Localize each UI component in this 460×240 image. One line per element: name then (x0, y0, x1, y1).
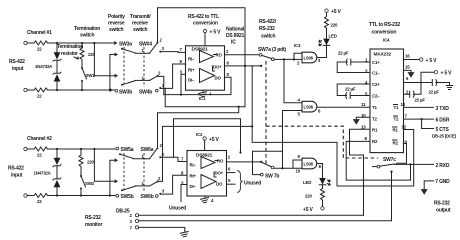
svg-text:T1: T1 (372, 105, 377, 110)
switch SW7b (260, 161, 262, 163)
resistor 220 top LED (325, 12, 329, 28)
switch SW6b pole blade (150, 182, 157, 186)
node ch2 220 top (80, 148, 82, 150)
wire pin2 cap to +5V (404, 72, 435, 97)
node pin6 +5V tie (420, 82, 422, 84)
contact SW7a throw2 (252, 65, 260, 67)
svg-text:R2: R2 (372, 139, 378, 144)
svg-text:Polarity: Polarity (108, 14, 125, 20)
svg-text:22 µF: 22 µF (345, 87, 356, 92)
svg-text:SW6a: SW6a (141, 147, 154, 153)
wire T2 ground (356, 117, 370, 119)
svg-text:+ 5 V: + 5 V (426, 58, 438, 64)
node RXD tie (409, 163, 411, 165)
resistor 220 ch2 termination (79, 149, 83, 169)
svg-text:1N4732A: 1N4732A (34, 171, 52, 176)
op-amp IC1 DS8921 box (186, 46, 225, 90)
svg-text:input: input (11, 173, 23, 179)
terminal ch2 top input (24, 147, 27, 150)
wire IC1 DI- unused stub (181, 74, 186, 94)
contact SW7b throw2 (260, 173, 263, 176)
svg-text:Unused: Unused (169, 206, 186, 212)
wire SW4b-2 to DO- return (159, 76, 164, 94)
wire ch1 bottom rail (48, 89, 115, 91)
wire SW6a-3 to IC2 pin7 (161, 157, 187, 161)
wire ch1 transmit bus DO+ (158, 8, 246, 107)
svg-text:switch: switch (261, 34, 276, 40)
svg-text:6 DSR: 6 DSR (436, 118, 450, 124)
wire RO out (214, 54, 217, 56)
linkage SW3 dashed (123, 47, 125, 87)
wire gate2 out to T1 (317, 106, 370, 108)
contact SW4a throw 3 (159, 51, 161, 53)
node DSR/CTS tie (421, 118, 423, 120)
contact SW6a throw 3 (159, 156, 161, 158)
node ch1 220 bottom (81, 89, 83, 91)
wire LED to resistor (326, 28, 328, 39)
node SW7c lower contact (390, 171, 392, 173)
node ch2 bus end (239, 151, 241, 153)
svg-text:output: output (436, 208, 451, 214)
linkage SW7 dashed branch to SW7c (266, 126, 378, 158)
svg-text:LS08: LS08 (304, 105, 314, 110)
svg-text:IC3: IC3 (294, 43, 301, 48)
LED D5 top (323, 39, 330, 46)
wire SW5b-SW6b common (135, 185, 150, 187)
node ch2 bottom / zener (56, 194, 58, 196)
op-amp IC2 DS8921 box (187, 151, 227, 197)
wire RI- feed link (S3) (174, 119, 241, 158)
wire SW4b-3 to IC1 pin8 (161, 64, 186, 88)
svg-text:22 µF: 22 µF (338, 51, 349, 56)
ground IC1 pin4 (199, 90, 207, 97)
svg-text:resistor: resistor (61, 51, 78, 57)
svg-text:15: 15 (405, 65, 410, 70)
svg-text:12: 12 (402, 124, 407, 129)
wire IC2 DI- unused (181, 185, 187, 202)
terminal +5V pin16 (420, 58, 423, 61)
svg-text:TTL to RS-232: TTL to RS-232 (369, 22, 400, 28)
svg-text:22: 22 (37, 153, 42, 158)
svg-text:MAX232: MAX232 (374, 52, 392, 58)
svg-text:220: 220 (305, 194, 312, 199)
svg-text:SW5b: SW5b (121, 194, 134, 200)
wire monitor line 7 (139, 227, 185, 230)
switch SW3a pole blade (121, 48, 123, 50)
wire ch2 bottom rail left (27, 195, 34, 197)
svg-text:DI–: DI– (190, 184, 197, 189)
svg-text:1N4732A: 1N4732A (35, 64, 53, 69)
svg-text:3 TXD: 3 TXD (436, 106, 450, 112)
svg-text:SW1: SW1 (86, 73, 96, 78)
wire gate3 pin9 jog (293, 160, 302, 168)
switch SW2 (80, 169, 82, 175)
svg-text:DI–: DI– (188, 78, 195, 83)
svg-text:IC: IC (231, 40, 236, 46)
svg-text:+ 5 V: + 5 V (210, 30, 222, 36)
wire IC1 pin6 DO+ to SW7a throw2 (225, 65, 253, 67)
terminal SW5a left (116, 147, 119, 150)
node pin6 bus junction (244, 65, 246, 67)
wire monitor line 2 (139, 214, 364, 216)
svg-text:SW3b: SW3b (119, 90, 132, 96)
node gate2 tap (283, 58, 285, 60)
switch SW4a pole blade (150, 44, 157, 54)
zener D2 1N4732A (53, 72, 61, 74)
svg-text:monitor: monitor (85, 222, 102, 228)
svg-text:13: 13 (361, 124, 366, 129)
node DI- join (180, 94, 182, 96)
wire SW5a-SW6a common (133, 158, 150, 160)
svg-text:DB-25 (DCE): DB-25 (DCE) (432, 134, 457, 139)
arrow to termination resistor (74, 57, 79, 59)
switch SW7c (373, 166, 378, 168)
svg-text:switch: switch (109, 27, 124, 33)
svg-text:SW2: SW2 (85, 181, 95, 186)
svg-text:DO: DO (215, 76, 222, 81)
wire SW7a throw2 to R1bar pin12 (A path) (252, 66, 414, 186)
svg-text:22 µF: 22 µF (429, 90, 440, 95)
terminal +5V pin2 (434, 71, 437, 74)
svg-text:Channel #2: Channel #2 (27, 136, 52, 142)
switch SW5a pole blade (119, 153, 121, 155)
svg-text:T1: T1 (394, 105, 399, 110)
svg-text:16: 16 (405, 54, 410, 59)
svg-text:+5 V: +5 V (209, 137, 219, 143)
linkage SW7 dashed vertical (265, 61, 267, 164)
svg-text:receive: receive (132, 21, 148, 27)
svg-text:RI+: RI+ (188, 68, 195, 73)
svg-text:SW7c: SW7c (383, 157, 396, 163)
svg-text:DO+: DO+ (215, 171, 224, 176)
svg-text:11: 11 (361, 102, 366, 107)
switch SW1 (81, 62, 83, 67)
svg-text:SW5a: SW5a (121, 147, 134, 153)
svg-text:C1–: C1– (372, 71, 380, 76)
svg-text:22: 22 (37, 199, 42, 204)
wire ch2 top rail (48, 148, 115, 150)
wire gate2 pin4 feed (284, 59, 302, 102)
wire SW6b-2 up to DO- bus (S4) (159, 126, 252, 181)
crossover wire ch1 top-to-lower (94, 43, 117, 77)
wire IC2 pin5 stub (227, 183, 236, 185)
svg-text:5 CTS: 5 CTS (436, 127, 450, 133)
wire ch2 bottom rail (48, 195, 115, 197)
node S1 junction (238, 106, 240, 108)
wire RO out IC2 (215, 160, 218, 162)
linkage SW5 dashed (123, 153, 125, 192)
wire DO- return line (164, 77, 231, 94)
wire ch1 top rail left (27, 42, 34, 44)
switch SW4b pole blade (150, 76, 157, 80)
resistor 22 ch1 top (34, 41, 48, 45)
svg-text:RS-422 to TTL: RS-422 to TTL (188, 14, 219, 20)
zener D1 1N4732A (56, 43, 58, 52)
svg-text:Termination: Termination (74, 26, 100, 32)
wire pin15 ground (404, 70, 412, 72)
contact SW4b throw 3 (159, 87, 161, 89)
wire gate2 pin5 feed (283, 111, 303, 169)
switch SW3b pole blade (121, 84, 123, 86)
svg-text:C2+: C2+ (372, 82, 380, 87)
zener D4 1N4732A (53, 178, 61, 180)
svg-text:IC4: IC4 (383, 38, 390, 43)
svg-text:R1: R1 (393, 128, 399, 133)
wire IC1 pin2 RO to SW7a (225, 54, 260, 56)
svg-text:reverse: reverse (108, 21, 125, 27)
svg-text:conversion: conversion (372, 30, 397, 36)
svg-text:2 RXD: 2 RXD (436, 163, 450, 169)
svg-text:DO+: DO+ (213, 65, 222, 70)
gate IC3a LS08 (302, 52, 317, 63)
svg-text:RI–: RI– (190, 163, 197, 168)
svg-text:T2: T2 (394, 117, 399, 122)
wire CTS branch (422, 119, 434, 128)
svg-text:R2: R2 (393, 141, 399, 146)
ground arrow pin15 (408, 73, 414, 78)
svg-text:Transmit/: Transmit/ (130, 14, 151, 20)
svg-text:SW 7b: SW 7b (265, 174, 279, 180)
svg-text:DB-25: DB-25 (116, 209, 130, 215)
wire R2bar pin9 (E path) (397, 144, 407, 164)
node gate3 input junction (281, 167, 283, 169)
svg-text:SW6b: SW6b (141, 194, 154, 200)
svg-text:T2: T2 (372, 117, 377, 122)
brace unused outputs (237, 171, 242, 193)
svg-text:LS08: LS08 (304, 162, 314, 167)
svg-text:SW3a: SW3a (119, 42, 132, 48)
resistor 220 ch1 termination (80, 43, 84, 62)
svg-text:LED: LED (303, 180, 311, 185)
buffer IC1 driver triangle (200, 69, 215, 83)
wire IC2 pin2 RO to SW7b (227, 161, 261, 163)
wire ch2 bus riser to S1 (S2) (158, 107, 239, 147)
svg-text:14: 14 (401, 102, 406, 107)
svg-text:C2–: C2– (372, 94, 380, 99)
wire SW7b common to gate3 (274, 167, 302, 169)
resistor 22 ch2 top (34, 147, 48, 151)
node S4 junction on A path (251, 125, 253, 127)
wire DO+ link to ch2 switch (S1) (165, 88, 245, 106)
wire SW7b throw2 loop (253, 151, 283, 174)
ground IC2 pin4 (201, 196, 209, 203)
svg-text:RI+: RI+ (190, 174, 197, 179)
svg-text:22: 22 (37, 94, 42, 99)
node ch1 220 top (81, 42, 83, 44)
wire SW7a out to gate1 (274, 58, 302, 60)
wire R1 pin13 to monitor line 2 (C path) (350, 129, 371, 215)
node gate1 pin1 tap (293, 58, 295, 60)
svg-text:+5 V: +5 V (331, 9, 341, 15)
ground arrow GND symbol (424, 181, 434, 190)
arrow into SW3b (110, 89, 112, 91)
svg-text:220: 220 (87, 160, 94, 165)
svg-text:LED: LED (329, 34, 337, 39)
svg-text:RS-422/: RS-422/ (259, 19, 277, 25)
wire DO+ out (213, 66, 215, 71)
terminal +5V IC2 (203, 137, 206, 140)
wire pin6 cap (404, 80, 450, 86)
terminal ch1 top input (24, 41, 27, 44)
wire gate1 out to LED (317, 45, 326, 57)
svg-text:RS-232: RS-232 (259, 26, 275, 32)
svg-text:+5 V: +5 V (303, 207, 313, 213)
gate IC3c LS08 (302, 158, 317, 169)
svg-text:Unused: Unused (244, 181, 261, 187)
wire +5V to IC2 (204, 140, 206, 150)
ground DB25 pin7 (180, 231, 188, 237)
node ch2 top / zener (56, 148, 58, 150)
svg-text:Channel #1: Channel #1 (27, 30, 52, 36)
wire ch1 top rail (48, 42, 112, 44)
wire SW3a-SW4a common (135, 52, 150, 54)
ground arrow T2 (354, 120, 360, 125)
svg-text:National: National (226, 27, 245, 33)
svg-text:input: input (12, 66, 24, 72)
contact SW4b right circle (156, 89, 159, 92)
wire DO+ out IC2 (214, 172, 216, 177)
crossover wire ch2 top-to-lower (94, 149, 117, 183)
svg-text:7 GND: 7 GND (435, 179, 450, 185)
svg-text:SW#4: SW#4 (139, 42, 152, 48)
wire T1bar to TXD (404, 106, 434, 108)
node ch1 top / zener (56, 42, 58, 44)
contact SW6b throw 3 (159, 193, 161, 195)
svg-text:RS-232: RS-232 (434, 201, 450, 207)
wire +5V to IC1 (204, 33, 206, 46)
chip IC4 MAX232 box (370, 49, 404, 153)
svg-text:SW7a (3 pdt): SW7a (3 pdt) (258, 47, 286, 53)
wire monitor line 3 (139, 220, 392, 222)
zener D3 1N4732A (56, 149, 58, 158)
crossover wire ch2 bottom-to-upper (110, 159, 117, 195)
resistor 220 bottom LED (321, 189, 325, 207)
wire T2bar to DSR (404, 118, 434, 120)
switch SW5b pole blade (121, 189, 123, 191)
terminal SW5b left (116, 194, 119, 197)
wire monitor RXD to SW7c lower (391, 172, 393, 221)
linkage SW4 dashed (143, 47, 145, 87)
arrow into SW3a (112, 42, 117, 44)
wire SW3b-SW4b common (135, 79, 150, 81)
wire LED2 to resistor (322, 185, 324, 189)
svg-text:RO: RO (216, 53, 223, 58)
svg-text:22 µF: 22 µF (415, 98, 426, 103)
terminal +5V bottom (321, 207, 324, 210)
svg-text:RI–: RI– (188, 57, 195, 62)
LED D6 bottom (319, 178, 326, 185)
svg-text:DS 8921: DS 8921 (226, 33, 244, 39)
gate IC3b LS08 (302, 101, 317, 112)
resistor 22 ch1 bottom (34, 88, 48, 92)
svg-text:+ 5 V: + 5 V (441, 71, 453, 77)
wire SW4a-3 to IC1 pin7 (161, 51, 186, 54)
wire R2 pin8 to RXD line (B path) (346, 141, 410, 180)
switch SW6a pole blade (150, 149, 157, 159)
svg-text:DO: DO (216, 182, 223, 187)
wire IC2 pin6 stub (227, 172, 236, 174)
resistor 22 ch2 bottom (34, 194, 48, 198)
ground bars pin6 cap (446, 86, 452, 90)
svg-text:220: 220 (331, 23, 338, 28)
wire ch2 top rail left (27, 148, 34, 150)
switch SW7a (259, 53, 262, 56)
svg-text:Termination: Termination (57, 44, 83, 50)
svg-text:RS-422: RS-422 (9, 59, 25, 65)
svg-text:RS-422: RS-422 (8, 166, 24, 172)
terminal SW3b left (115, 89, 118, 92)
wire ch1 bottom rail left (27, 89, 34, 91)
wire pin16 +5V (404, 59, 420, 61)
node ch2 220 bottom (80, 194, 82, 196)
svg-text:SW4b: SW4b (139, 90, 152, 96)
wire gate1 pin1 jog (294, 53, 302, 59)
svg-text:RS-232: RS-232 (85, 215, 101, 221)
buffer IC1 receiver triangle (200, 51, 214, 63)
svg-text:R1: R1 (372, 128, 378, 133)
crossover wire ch1 bottom-to-upper (110, 53, 117, 90)
svg-text:22: 22 (37, 47, 42, 52)
buffer IC2 driver triangle (201, 175, 216, 189)
terminal ch1 bottom input (24, 88, 27, 91)
terminal ch2 bottom input (24, 194, 27, 197)
svg-text:switch: switch (80, 33, 95, 39)
wire SW6b-3 to IC2 pin8 (161, 175, 187, 194)
linkage SW6 dashed (143, 153, 145, 192)
terminal +5V IC1 (203, 29, 206, 32)
svg-text:LS08: LS08 (304, 56, 314, 61)
svg-text:10: 10 (296, 169, 301, 174)
svg-text:C1+: C1+ (372, 60, 380, 65)
buffer IC2 receiver triangle (201, 157, 215, 169)
svg-text:switch: switch (133, 27, 148, 33)
wire gate3 out to LED (317, 164, 322, 179)
svg-text:IC2: IC2 (196, 132, 203, 137)
terminal +5V top (325, 9, 328, 12)
node ch1 bottom / zener (56, 89, 58, 91)
svg-text:conversion: conversion (193, 21, 218, 27)
wire SW7c to RXD (395, 163, 434, 165)
contact SW6b right circle (156, 195, 159, 198)
svg-text:RO: RO (217, 159, 224, 164)
